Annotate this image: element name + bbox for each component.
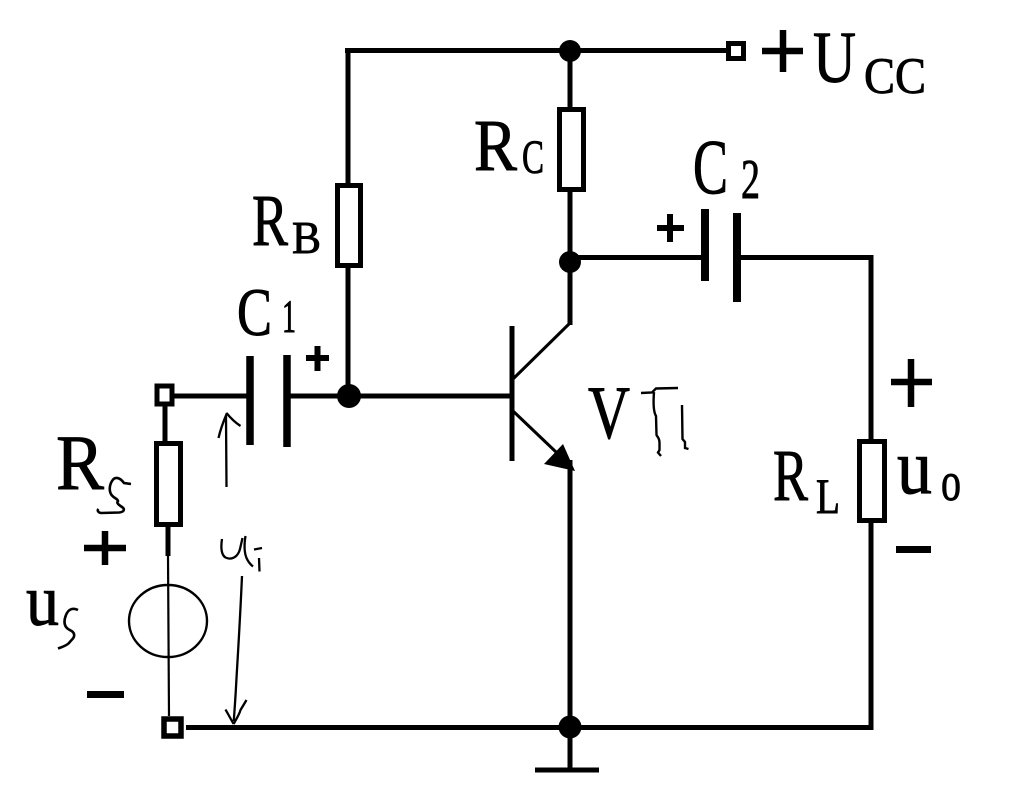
transistor emitter diagonal xyxy=(513,411,556,452)
transistor VT base bar xyxy=(510,326,515,461)
svg-text:C: C xyxy=(522,131,544,184)
resistor RS xyxy=(157,444,181,525)
terminal input top open square xyxy=(157,386,172,404)
label VT text xyxy=(588,372,630,455)
resistor RC xyxy=(560,110,584,190)
wire RS bottom stub xyxy=(166,524,171,556)
label us subscript s handwritten xyxy=(58,609,78,649)
annotation ui handwritten i xyxy=(254,548,262,572)
svg-text:R: R xyxy=(252,180,288,261)
annotation ui long down arrow xyxy=(226,576,247,724)
wire RL bottom to bottom rail xyxy=(869,520,874,730)
label RL xyxy=(773,435,840,524)
annotation ui handwritten u xyxy=(221,536,253,567)
label RS subscript s handwritten xyxy=(98,478,131,513)
wire base node to transistor xyxy=(349,394,510,399)
wire emitter vertical xyxy=(568,460,573,727)
svg-text:C: C xyxy=(237,274,272,350)
svg-text:o: o xyxy=(941,451,961,512)
ground bar xyxy=(535,768,599,773)
capacitor C1 left plate xyxy=(246,356,254,445)
wire RC bottom to collector node xyxy=(568,190,573,262)
wire input terminal to C1 xyxy=(174,394,247,399)
transistor emitter arrowhead xyxy=(544,444,575,471)
label uo text xyxy=(897,423,961,512)
node collector junction dot xyxy=(559,251,581,273)
label us plus sign xyxy=(84,531,126,565)
label +Ucc plus sign xyxy=(762,30,803,72)
annotation ui up arrow xyxy=(219,413,241,487)
label Ucc text xyxy=(813,17,926,105)
terminal +Ucc open square xyxy=(729,44,744,59)
wire bottom rail xyxy=(186,725,871,730)
resistor RB xyxy=(338,186,361,266)
label uo plus sign xyxy=(891,359,932,407)
source us circle xyxy=(129,585,207,657)
label RS xyxy=(56,419,104,506)
svg-text:CC: CC xyxy=(864,49,926,105)
wire C1 to base node xyxy=(290,394,350,399)
svg-text:U: U xyxy=(813,17,856,98)
svg-text:2: 2 xyxy=(741,149,760,211)
wire RC top from rail xyxy=(568,53,573,109)
capacitor C2 right plate xyxy=(733,213,741,302)
svg-text:R: R xyxy=(56,419,104,506)
svg-text:u: u xyxy=(897,423,932,510)
label us minus sign xyxy=(87,691,124,698)
label VT handwritten second stroke xyxy=(682,405,689,449)
ground stub xyxy=(568,727,573,769)
wire terminal to RS xyxy=(163,405,168,443)
label C1 plus sign xyxy=(306,346,329,371)
svg-text:u: u xyxy=(26,560,59,641)
node collector-top junction dot xyxy=(559,40,581,62)
node emitter-ground junction dot xyxy=(559,716,582,739)
svg-text:R: R xyxy=(773,435,808,516)
svg-text:V: V xyxy=(588,372,630,455)
label C1 xyxy=(237,274,296,350)
wire C2 to RL corner xyxy=(741,255,874,260)
wire RB bottom to base node xyxy=(346,266,351,396)
wire collector node to C2 xyxy=(570,255,702,260)
label RB xyxy=(252,180,321,263)
wire through source circle xyxy=(168,556,169,716)
capacitor C1 right plate xyxy=(283,355,291,447)
label C2 xyxy=(693,123,760,211)
wire collector vertical xyxy=(568,262,573,325)
node base junction dot xyxy=(337,384,361,408)
wire RB branch vertical from top rail xyxy=(346,48,351,185)
label C2 plus sign xyxy=(657,214,684,242)
label us text xyxy=(26,560,59,641)
capacitor C2 left plate xyxy=(701,209,709,281)
svg-text:1: 1 xyxy=(282,291,296,343)
svg-text:C: C xyxy=(693,123,728,210)
terminal input bottom open square xyxy=(164,719,181,736)
label uo minus sign xyxy=(896,546,931,553)
svg-text:L: L xyxy=(816,468,840,524)
resistor RL xyxy=(860,442,885,521)
label VT handwritten T xyxy=(641,388,678,456)
wire right rail down to RL xyxy=(869,255,874,441)
svg-text:B: B xyxy=(292,213,321,263)
label RC xyxy=(474,105,544,186)
transistor collector diagonal xyxy=(513,324,569,379)
wire top rail from RB corner to UCC terminal xyxy=(345,48,727,53)
svg-text:R: R xyxy=(474,105,517,186)
